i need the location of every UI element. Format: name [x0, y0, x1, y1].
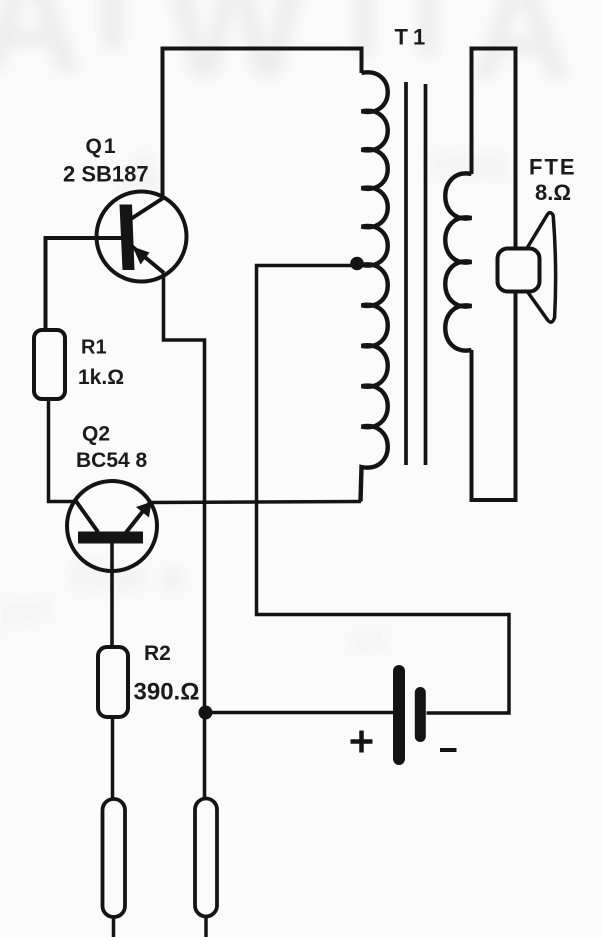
svg-text:BC54 8: BC54 8: [76, 449, 148, 472]
svg-text:R2: R2: [144, 642, 171, 665]
svg-text:FTE: FTE: [529, 155, 577, 180]
svg-text:1k.Ω: 1k.Ω: [78, 366, 124, 389]
svg-text:Q2: Q2: [82, 423, 110, 446]
svg-text:R1: R1: [81, 337, 107, 359]
svg-text:8.Ω: 8.Ω: [535, 180, 571, 205]
svg-text:2 SB187: 2 SB187: [63, 162, 149, 187]
svg-text:Q1: Q1: [86, 135, 118, 158]
svg-text:390.Ω: 390.Ω: [134, 679, 200, 706]
svg-text:T1: T1: [395, 25, 431, 50]
